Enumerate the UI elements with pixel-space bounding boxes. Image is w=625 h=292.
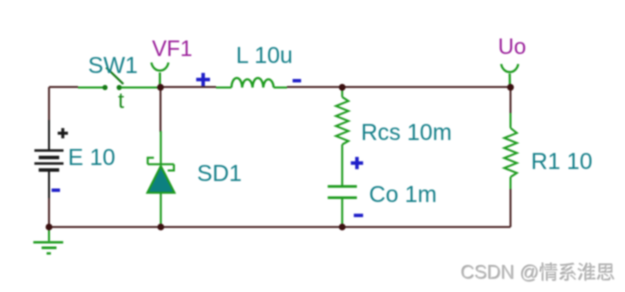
resistor R1 top stub green (510, 113, 512, 128)
plus mark battery (58, 128, 68, 138)
diode SD1 triangle (147, 166, 174, 193)
diode SD1 cathode lead green (160, 131, 162, 164)
wire switch left lead green (78, 87, 103, 89)
resistor R1 bottom stub green (510, 177, 512, 190)
wire node VF1 to inductor maroon (160, 86, 216, 88)
junction node diode bottom (157, 224, 164, 231)
capacitor Co bottom lead green (341, 198, 343, 227)
plus mark capacitor (351, 157, 363, 169)
battery E1 bottom lead (48, 171, 50, 199)
resistor Rcs zigzag (336, 97, 348, 145)
wire left vertical maroon lower (48, 198, 50, 227)
junction node at VF1 (157, 84, 164, 91)
probe VF1 symbol (151, 63, 168, 87)
label R1 10 (531, 150, 592, 173)
wire right vertical maroon lower (510, 189, 512, 227)
wire diode branch maroon upper (160, 87, 162, 132)
junction node capacitor bottom (339, 224, 346, 231)
wire right vertical maroon upper (510, 87, 512, 114)
probe Uo symbol (501, 64, 518, 86)
battery E1 top lead (48, 120, 50, 150)
battery E1 plates (34, 151, 63, 171)
wire top-left maroon segment (49, 86, 78, 88)
junction node bottom-left ground (46, 224, 53, 231)
inductor L1 leads (216, 87, 287, 89)
wire switch right lead green (121, 87, 160, 89)
label L 10u (236, 44, 293, 67)
label SW1 (88, 54, 138, 77)
resistor Rcs top stub green (341, 88, 343, 97)
junction node at Uo (507, 84, 514, 91)
wire Rcs to capacitor green (341, 145, 343, 187)
watermark CSDN (461, 264, 615, 283)
wire inductor to top-right maroon (287, 86, 511, 88)
label Co 1m (369, 183, 437, 206)
label SD1 (197, 162, 242, 185)
switch SW1 (102, 68, 123, 91)
label t (switch control) (118, 90, 124, 112)
diode SD1 schottky bar (148, 158, 174, 171)
minus mark inductor output (293, 79, 302, 82)
label E 10 (68, 146, 115, 169)
junction node at Rcs top (339, 84, 346, 91)
diode SD1 anode lead green (160, 193, 162, 227)
resistor R1 zigzag (504, 128, 517, 177)
minus mark battery (52, 189, 60, 192)
ground symbol (33, 228, 63, 253)
capacitor Co plates (328, 186, 357, 197)
minus mark capacitor (354, 214, 363, 217)
inductor L1 coils (232, 78, 274, 88)
wire bottom rail maroon (49, 226, 511, 228)
label Rcs 10m (361, 121, 452, 144)
label VF1 (152, 38, 192, 60)
label Uo (498, 36, 526, 58)
plus mark inductor input (196, 73, 210, 86)
wire left vertical maroon upper (48, 87, 50, 121)
